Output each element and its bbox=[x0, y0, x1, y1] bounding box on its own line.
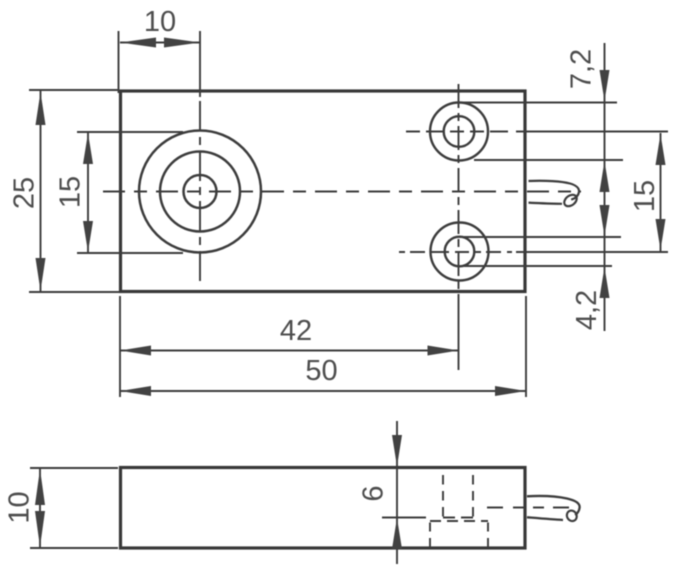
svg-text:4,2: 4,2 bbox=[571, 290, 603, 330]
dimension 6 up arrow bbox=[392, 518, 402, 549]
dimension 42 right extension line bbox=[458, 298, 460, 370]
dimension 50 line bbox=[120, 390, 526, 392]
dimension 10 side line bbox=[39, 468, 41, 548]
dimension 42 right arrow bbox=[428, 346, 459, 356]
dimension 10 line bbox=[120, 42, 200, 44]
svg-text:42: 42 bbox=[280, 315, 312, 347]
dimension 15 right bottom arrow bbox=[656, 219, 666, 250]
dimension 7,2 down arrow bbox=[600, 70, 610, 101]
dimension 42 left arrow bbox=[120, 346, 151, 356]
svg-text:15: 15 bbox=[629, 180, 661, 212]
dimension 50 right arrow bbox=[495, 386, 526, 396]
cable cut face ellipse side view bbox=[565, 509, 579, 523]
dimension 42 line bbox=[120, 350, 459, 352]
dimension 15 right top arrow bbox=[656, 134, 666, 165]
dimension 7,2 and 4,2 shared dimension line bbox=[604, 43, 606, 331]
dimension 6 line bbox=[396, 421, 398, 564]
dimension 4,2 upper tangent extension line bbox=[460, 236, 622, 238]
dimension 4,2 down arrow bbox=[600, 205, 610, 236]
svg-text:10: 10 bbox=[4, 491, 36, 523]
dimension 25 bottom extension line bbox=[29, 291, 119, 293]
mounting holes vertical center line bbox=[458, 84, 460, 298]
svg-text:25: 25 bbox=[9, 177, 41, 209]
hidden hole left edge side view bbox=[442, 475, 444, 517]
dimension 4,2 lower tangent extension line bbox=[464, 265, 612, 267]
dimension 6 down arrow bbox=[392, 435, 402, 467]
dimension 15 right line bbox=[660, 133, 662, 251]
side view body outline bbox=[121, 468, 526, 549]
dimension 50 left arrow bbox=[120, 386, 151, 396]
top view body outline bbox=[121, 91, 526, 292]
dimension 10 side bottom arrow bbox=[35, 511, 45, 547]
svg-text:6: 6 bbox=[358, 485, 390, 501]
upper mounting hole outer circle bbox=[430, 103, 488, 161]
upper mounting hole inner circle bbox=[444, 116, 475, 147]
dimension 42 left extension line bbox=[119, 296, 121, 397]
svg-text:7,2: 7,2 bbox=[566, 49, 598, 89]
sensing face middle circle bbox=[160, 152, 240, 232]
dimension 10 left arrow bbox=[120, 38, 156, 48]
big circle vertical center line bbox=[199, 101, 201, 281]
cable center line side view bbox=[487, 507, 571, 509]
lower hole horizontal center line dashed part bbox=[399, 251, 512, 253]
sensing face outer circle bbox=[139, 131, 261, 253]
dimension 15 left bottom extension line bbox=[77, 252, 183, 254]
dimension 6 reference line bbox=[382, 517, 426, 519]
svg-text:50: 50 bbox=[305, 355, 337, 387]
upper hole horizontal center line solid part bbox=[516, 131, 668, 133]
dimension 7,2 up arrow bbox=[600, 161, 610, 192]
dimension 15 left bottom arrow bbox=[83, 221, 93, 252]
hidden counterbore top side view bbox=[430, 520, 488, 522]
hidden hole right edge side view bbox=[472, 475, 474, 517]
dimension 10 side top arrow bbox=[35, 469, 45, 505]
dimension 50 right extension line bbox=[525, 296, 527, 397]
lower mounting hole inner circle bbox=[445, 237, 475, 267]
hidden hole bottom side view bbox=[443, 517, 473, 519]
hidden counterbore left edge side view bbox=[429, 523, 431, 548]
dimension 15 left line bbox=[87, 132, 89, 253]
cable stub top view bbox=[529, 181, 579, 200]
dimension 10 right extension line bbox=[199, 31, 201, 97]
lower mounting hole outer circle bbox=[431, 223, 489, 281]
cable stub bottom line top view bbox=[529, 203, 563, 204]
main horizontal center line bbox=[103, 191, 581, 193]
dimension 15 left top arrow bbox=[83, 133, 93, 164]
dimension 15 left top extension line bbox=[77, 131, 183, 133]
dimension 25 top arrow bbox=[36, 92, 46, 125]
cable stub side view bottom line bbox=[527, 517, 563, 520]
sensing face inner circle bbox=[184, 175, 217, 208]
dimension 25 line bbox=[40, 91, 42, 292]
cable stub side view top line bbox=[527, 496, 580, 515]
dimension 7,2 lower tangent extension line bbox=[474, 159, 623, 161]
lower hole horizontal center line solid part bbox=[516, 251, 668, 253]
cable cut face ellipse top view bbox=[562, 192, 579, 208]
dimension 10 side top extension line bbox=[30, 467, 118, 469]
dimension 4,2 up arrow bbox=[600, 267, 610, 298]
dimension 10 side bottom extension line bbox=[30, 547, 118, 549]
dimension 25 bottom arrow bbox=[36, 258, 46, 291]
dimension 25 top extension line bbox=[29, 89, 119, 91]
upper hole horizontal center line dashed part bbox=[406, 131, 512, 133]
svg-text:15: 15 bbox=[55, 176, 87, 208]
svg-text:10: 10 bbox=[144, 6, 176, 38]
dimension 10 left extension line bbox=[118, 31, 120, 93]
dimension 7,2 upper tangent extension line bbox=[459, 102, 618, 104]
hidden counterbore right edge side view bbox=[487, 523, 489, 548]
dimension 10 right arrow bbox=[164, 38, 200, 48]
